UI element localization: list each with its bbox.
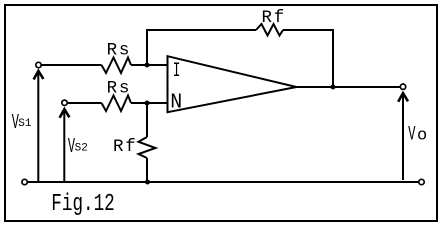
- wire: Vs2 terminal to Rs2: [67, 102, 101, 104]
- node: junction dot at output: [331, 85, 336, 90]
- wire: op-amp output to Vo terminal: [296, 86, 400, 88]
- svg-text:N: N: [170, 91, 182, 115]
- svg-text:o: o: [417, 127, 427, 146]
- op-amp U1 triangle: [168, 56, 297, 112]
- wire: vertical Rf upper lead from N node: [146, 103, 148, 137]
- svg-text:Fig.12: Fig.12: [51, 191, 114, 219]
- wire: Rs2 to op-amp non-inverting input: [131, 102, 168, 104]
- arrow shaft: Vs1 source indicator: [37, 72, 39, 182]
- arrowhead: Vo: [398, 93, 408, 102]
- terminal: bottom-left common (open circle): [22, 179, 27, 184]
- arrow shaft: Vs2 source indicator: [63, 111, 65, 182]
- resistor Rs (second, R s2): [102, 96, 132, 112]
- arrow shaft: Vo output indicator: [402, 95, 404, 181]
- svg-text:Rf: Rf: [113, 137, 138, 157]
- svg-text:Rs: Rs: [107, 79, 132, 99]
- node: junction dot at non-inverting input: [145, 101, 150, 106]
- wire: feedback top horizontal left of Rf: [146, 29, 256, 31]
- wire: Rs1 to op-amp inverting input: [131, 64, 168, 66]
- terminal: Vs1 input (open circle): [36, 62, 41, 67]
- wire: Vs1 terminal to Rs1: [41, 64, 101, 66]
- arrowhead: Vs2: [60, 109, 70, 118]
- resistor Rf (feedback): [256, 24, 283, 36]
- node: junction dot on bottom rail: [145, 180, 150, 185]
- svg-text:Rf: Rf: [262, 8, 287, 28]
- node: junction dot at inverting input: [145, 63, 150, 68]
- svg-text:V: V: [408, 124, 416, 147]
- svg-text:I: I: [173, 60, 181, 83]
- terminal: bottom-right common (open circle): [419, 179, 424, 184]
- wire: feedback left vertical leg: [146, 30, 148, 65]
- resistor Rs (top, R s1): [102, 58, 132, 74]
- terminal: Vs2 input (open circle): [62, 100, 67, 105]
- svg-text:Rs: Rs: [107, 41, 132, 61]
- wire: feedback top horizontal right of Rf: [283, 29, 334, 31]
- arrowhead: Vs1: [34, 71, 44, 80]
- svg-text:S1: S1: [18, 118, 32, 130]
- svg-text:S2: S2: [75, 142, 88, 154]
- terminal: Vo output (open circle): [400, 84, 405, 89]
- resistor Rf (to ground rail, vertical): [139, 137, 156, 158]
- wire: bottom common rail: [27, 181, 418, 183]
- wire: vertical Rf lower lead to bottom rail: [146, 158, 148, 182]
- wire: feedback right vertical leg to output: [332, 29, 334, 87]
